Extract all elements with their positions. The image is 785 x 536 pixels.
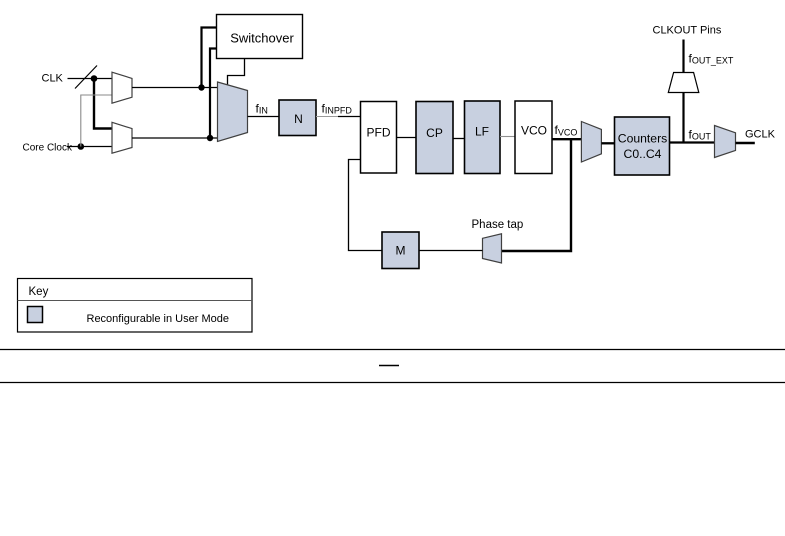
- rule: separator bottom: [0, 382, 785, 384]
- node: Core Clock tap junction: [78, 143, 85, 150]
- wire: lower mux output: [132, 137, 218, 139]
- mux: VCO phase select: [581, 122, 601, 163]
- page number dash: [379, 365, 399, 367]
- wire: phase mux to counters (thick): [601, 142, 614, 144]
- wire: CLK input: [68, 78, 112, 80]
- wire: upper mux output: [132, 87, 218, 89]
- wire: N to PFD: [316, 116, 338, 118]
- svg-text:Phase tap: Phase tap: [472, 219, 524, 231]
- wire: Core Clock tap to upper input mux: [81, 95, 112, 147]
- legend: reconfigurable swatch: [28, 307, 43, 323]
- mux: upper input select: [112, 72, 132, 103]
- wire: VCO output (thick): [552, 138, 581, 140]
- wire: PFD to CP: [397, 137, 417, 139]
- wire: Switchover control to input mux: [228, 59, 245, 86]
- block: VCO: [515, 101, 552, 174]
- block: PFD: [361, 102, 397, 174]
- block: Switchover: [217, 15, 303, 59]
- block: M feedback counter: [382, 232, 419, 269]
- block: LF loop filter: [465, 101, 501, 174]
- rule: separator top: [0, 349, 785, 351]
- wire: CLK tap to lower input mux (thick): [94, 79, 112, 129]
- wire: M to PFD feedback: [349, 160, 383, 251]
- svg-text:CLK: CLK: [42, 73, 64, 85]
- mux: phase tap select: [483, 234, 502, 263]
- svg-text:PFD: PFD: [367, 126, 391, 140]
- node: upper output tap: [198, 84, 204, 90]
- mux: external clock output buffer: [668, 73, 699, 93]
- wire: lower tap to Switchover (thick): [210, 49, 217, 139]
- mux: lower input select: [112, 122, 132, 153]
- wire: upper tap to Switchover (thick): [202, 28, 217, 88]
- svg-text:M: M: [396, 244, 406, 258]
- wire: LF to VCO (gray): [500, 136, 515, 138]
- block: Counters C0..C4: [615, 117, 670, 175]
- svg-text:Core Clock: Core Clock: [23, 143, 73, 154]
- block: N pre-scale counter: [279, 100, 316, 136]
- wire: counters output fOUT (thick): [670, 141, 715, 143]
- legend: divider: [18, 300, 253, 302]
- svg-text:VCO: VCO: [521, 124, 547, 138]
- mux: GCLK driver: [715, 126, 736, 158]
- node: CLK tap junction: [91, 75, 98, 82]
- legend: key box: [18, 279, 253, 333]
- node: lower output tap: [207, 135, 213, 141]
- bus slash on CLK input: [75, 66, 97, 89]
- svg-text:Key: Key: [29, 286, 49, 298]
- wire: CLKOUT pin stem (thick): [682, 40, 684, 73]
- wire: input mux to N counter: [248, 116, 280, 118]
- svg-text:GCLK: GCLK: [745, 129, 776, 141]
- svg-text:C0..C4: C0..C4: [624, 147, 662, 161]
- svg-text:Counters: Counters: [618, 132, 667, 146]
- block: CP charge pump: [416, 102, 453, 174]
- wire: fOUT junction up to external output buffer (thick): [682, 93, 684, 144]
- svg-text:LF: LF: [475, 125, 489, 139]
- mux: PLL input mux (reconfigurable): [218, 82, 248, 142]
- wire: VCO feedback down to phase tap (thick): [502, 139, 572, 251]
- svg-text:CP: CP: [426, 126, 443, 140]
- svg-text:Reconfigurable in User Mode: Reconfigurable in User Mode: [87, 313, 229, 325]
- wire: CP to LF: [453, 138, 465, 140]
- wire: Core Clock input: [67, 146, 112, 148]
- svg-text:N: N: [294, 112, 303, 126]
- wire: GCLK output (thick): [736, 142, 755, 144]
- wire: phase tap to M: [419, 250, 483, 252]
- svg-text:Switchover: Switchover: [230, 31, 294, 46]
- svg-text:CLKOUT Pins: CLKOUT Pins: [653, 25, 722, 37]
